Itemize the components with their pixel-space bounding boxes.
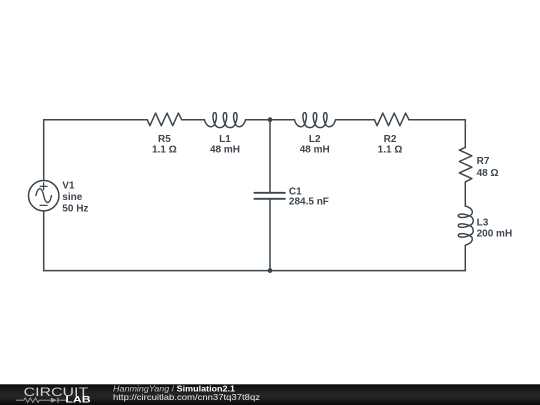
inductor L3 [458,206,473,245]
svg-text:1.1 Ω: 1.1 Ω [378,144,403,155]
svg-text:R7: R7 [477,156,490,167]
resistor R2 [374,113,409,126]
logo wire left [16,399,24,401]
svg-text:50 Hz: 50 Hz [62,203,88,214]
wire right rail lower [464,245,466,270]
inductor L1 [204,113,245,128]
logo wire middle [39,399,50,401]
svg-text:48 mH: 48 mH [210,144,240,155]
capacitor C1 bottom plate [254,198,285,200]
logo diode triangle [51,398,57,403]
inductor L2 [294,113,335,128]
wire middle rail lower (C1 to bottom node) [269,200,271,271]
svg-text:48 mH: 48 mH [300,144,330,155]
svg-text:L2: L2 [309,134,321,145]
wire middle rail upper (node to C1) [269,120,271,193]
wire top rail: R5 to L1 [182,119,205,121]
resistor R7 [459,147,472,181]
node junction top (L1/L2/C1) [268,117,273,122]
logo diode bar [57,398,59,403]
V1 sine wave [36,189,52,203]
logo resistor zigzag [24,398,40,402]
capacitor C1 top plate [254,192,285,194]
V1 plus sign [40,183,47,190]
wire right rail middle (R7 to L3) [464,182,466,206]
wire top rail: L2 to R2 [336,119,375,121]
svg-text:1.1 Ω: 1.1 Ω [152,144,177,155]
svg-text:284.5 nF: 284.5 nF [289,197,329,208]
wire top rail: left corner to R5 [44,119,148,121]
logo wire right [58,399,68,401]
voltage source V1 circle [29,181,59,211]
wire bottom rail [44,270,466,272]
wire left rail lower [43,211,45,271]
wire top rail: R2 to right corner [409,119,465,121]
resistor R5 [147,113,181,126]
node junction bottom (C1/bottom rail) [268,268,273,273]
V1 minus sign [40,204,47,206]
wire left rail upper [43,120,45,181]
wire top rail: L1 through node to L2 [246,119,295,121]
svg-text:V1: V1 [62,181,75,192]
svg-text:200 mH: 200 mH [477,229,513,240]
wire right rail upper [464,120,466,148]
svg-text:R5: R5 [158,134,171,145]
svg-text:48 Ω: 48 Ω [477,168,499,179]
svg-text:L3: L3 [477,217,489,228]
svg-text:sine: sine [62,192,82,203]
footer bar [0,384,540,405]
svg-text:L1: L1 [219,134,231,145]
svg-text:http://circuitlab.com/cnn37tq3: http://circuitlab.com/cnn37tq37t8qz [113,392,260,402]
svg-text:LAB: LAB [65,395,91,405]
svg-text:R2: R2 [384,134,397,145]
